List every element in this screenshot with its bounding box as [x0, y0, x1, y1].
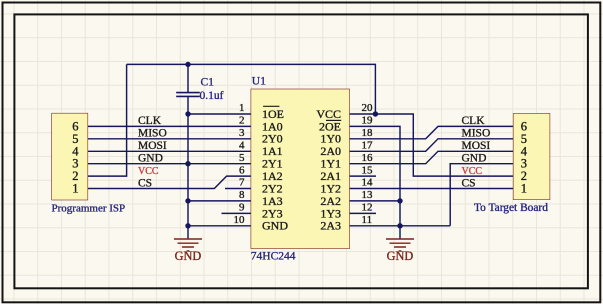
svg-text:14: 14 [362, 177, 374, 189]
svg-text:CLK: CLK [138, 115, 162, 127]
junction pin10 row [185, 223, 190, 228]
junction rail/C1 [185, 62, 190, 67]
svg-text:12: 12 [362, 202, 373, 214]
junction pin13 row [397, 198, 402, 203]
svg-text:GND: GND [387, 249, 414, 263]
junction rail/pin20 [373, 111, 378, 116]
junction pin11 row [397, 223, 402, 228]
wire net GND: programmer pin3 to IC pin5 (2Y1) [88, 163, 252, 165]
svg-text:3: 3 [239, 127, 245, 139]
junction pin8 row [185, 198, 190, 203]
junction C1 bottom/pin1 [185, 111, 190, 116]
svg-text:8: 8 [239, 189, 245, 201]
svg-text:4: 4 [239, 140, 245, 152]
svg-text:Programmer ISP: Programmer ISP [52, 203, 126, 215]
wire IC pin12 stub (1Y3) [349, 212, 376, 214]
svg-text:74HC244: 74HC244 [251, 250, 296, 262]
svg-text:17: 17 [362, 140, 374, 152]
svg-text:11: 11 [362, 214, 373, 226]
wire capacitor C1 top lead from rail [187, 64, 189, 92]
wire net CS: IC pin14 (1Y2) straight to target pin1 [349, 188, 513, 190]
svg-text:GND: GND [138, 153, 163, 165]
svg-text:MOSI: MOSI [138, 140, 167, 152]
svg-text:VCC: VCC [138, 166, 159, 177]
svg-text:9: 9 [239, 202, 245, 214]
connector P1 Programmer ISP [52, 114, 88, 200]
wire net CS: programmer pin1 with diagonal up to IC pin6 (1A2) [88, 176, 252, 188]
svg-text:GND: GND [262, 219, 288, 233]
svg-text:VCC: VCC [462, 166, 483, 177]
svg-text:To Target Board: To Target Board [474, 202, 548, 214]
svg-text:MISO: MISO [138, 128, 167, 140]
connector To Target Board [514, 114, 550, 200]
svg-text:CLK: CLK [462, 115, 486, 127]
wire net MOSI: IC pin16 (1Y1) diagonal up to target pin4 [349, 151, 513, 163]
junction left GND row [185, 161, 190, 166]
svg-text:13: 13 [362, 189, 374, 201]
svg-text:C1: C1 [201, 77, 215, 89]
svg-text:GND: GND [462, 153, 487, 165]
wire capacitor C1 bottom lead to pin1 row [187, 96, 189, 114]
wire net MOSI: programmer pin4 to IC pin4 (1A1) [88, 150, 252, 152]
wire net GND: left vertical from C1 bottom to ground symbol [187, 114, 189, 239]
svg-text:CS: CS [462, 177, 476, 189]
svg-text:6: 6 [239, 164, 245, 176]
wire net VCC: top rail across to right vertical [127, 64, 376, 114]
wire IC pin7 stub (2Y2) [225, 188, 251, 190]
wire net VCC: IC pin20 to right VCC vertical, down to target pin2 [349, 114, 513, 176]
svg-text:GND: GND [175, 249, 202, 263]
svg-text:1: 1 [239, 102, 245, 114]
svg-text:CS: CS [138, 177, 152, 189]
wire net GND: left vertical to IC pin8 (1A3) [188, 200, 251, 202]
svg-text:18: 18 [362, 127, 374, 139]
ground symbol right GND [386, 239, 414, 251]
capacitor C1 [176, 93, 200, 97]
wire net GND: left vertical to IC pin10 (GND) [188, 225, 251, 227]
svg-text:1: 1 [72, 182, 78, 196]
wire net GND: IC pin13 (2A2) to right vertical [349, 200, 400, 202]
wire net GND: IC pin11 (2A3) row to gnd-return vertical [349, 225, 450, 227]
svg-text:10: 10 [234, 214, 246, 226]
svg-text:5: 5 [239, 152, 245, 164]
svg-text:1: 1 [521, 182, 527, 196]
svg-text:U1: U1 [252, 76, 266, 88]
svg-text:MOSI: MOSI [462, 140, 491, 152]
wire net GND: IC pin1 row (1OE) from left vertical to IC [188, 113, 251, 115]
wire net CLK: programmer pin6 to IC pin2 (1A0) [88, 125, 252, 127]
wire net GND: IC pin19 (2OE) elbow down right vertical to ground [349, 126, 400, 239]
wire net GND: target pin3 elbow down to pin11 row [450, 164, 513, 226]
svg-text:2A3: 2A3 [320, 219, 341, 233]
svg-text:MISO: MISO [462, 128, 491, 140]
wire net VCC: programmer pin2, elbow up to top rail [88, 64, 127, 176]
svg-text:20: 20 [362, 102, 374, 114]
wire net MISO: programmer pin5 to IC pin3 (2Y0) [88, 138, 252, 140]
wire IC pin15 stub (2A1) [349, 175, 376, 177]
wire IC pin9 stub (2Y3) [222, 212, 252, 214]
svg-text:15: 15 [362, 164, 374, 176]
svg-text:16: 16 [362, 152, 374, 164]
svg-text:19: 19 [362, 115, 374, 127]
svg-text:7: 7 [239, 177, 245, 189]
svg-text:2: 2 [239, 115, 245, 127]
ground symbol left GND [174, 239, 202, 251]
wire net CLK: IC pin18 (1Y0) diagonal up to target pin6 [349, 126, 513, 138]
buffer IC U1 74HC244 body [251, 89, 349, 248]
svg-text:0.1uf: 0.1uf [200, 90, 224, 102]
wire net MISO: IC pin17 (2A0) diagonal up to target pin5 [349, 139, 513, 152]
